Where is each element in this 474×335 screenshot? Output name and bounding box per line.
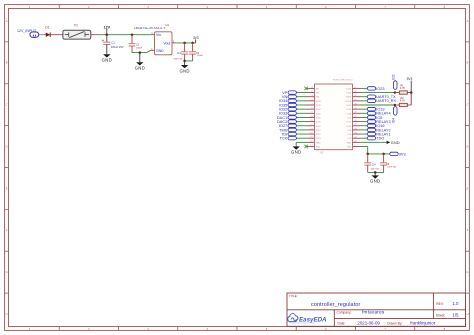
wire C2 to GND rail [132, 46, 151, 53]
svg-text:3V3: 3V3 [399, 152, 406, 156]
U2 pin names and pin stubs [307, 87, 361, 149]
node RELAY1 net label [367, 132, 390, 136]
svg-text:VN: VN [316, 97, 319, 99]
ground under decoupling caps [370, 175, 380, 183]
node 3V3 flag at R1 [407, 77, 413, 93]
resistor R2 4.7K [395, 96, 411, 107]
ground under output caps [179, 65, 189, 73]
node TDO net label [367, 137, 384, 141]
wires caps to GND rail [185, 54, 193, 61]
junction GND caps [374, 171, 377, 174]
svg-text:REV:: REV: [436, 302, 444, 306]
node IO23 net label [367, 87, 384, 91]
C4 labels [371, 162, 380, 170]
node IO5 net label [367, 116, 382, 120]
C2 labels 100nF [136, 44, 143, 50]
ground flag right of U2 [387, 141, 400, 145]
svg-text:GND: GND [135, 66, 145, 71]
svg-text:24: 24 [355, 137, 357, 139]
svg-text:36: 36 [355, 91, 357, 93]
svg-text:Date:: Date: [338, 321, 346, 325]
node RELAY3 net label [367, 120, 390, 124]
microcontroller U2 ESP32-WROOM-32 [315, 80, 354, 155]
node IO34 net label [279, 99, 296, 103]
svg-text:IO4: IO4 [391, 118, 395, 123]
svg-text:100nF: 100nF [197, 55, 203, 57]
svg-text:B: B [467, 61, 469, 65]
svg-text:12: 12 [310, 124, 312, 126]
node DAC1 net label [277, 116, 296, 120]
wire RELAY4 [361, 112, 368, 114]
wire to GND [184, 61, 186, 65]
node 12V net flag [104, 25, 111, 34]
C3 labels [174, 51, 183, 60]
svg-text:D: D [6, 144, 8, 148]
wire to C5 [192, 43, 194, 52]
wire UART0_TX [361, 96, 368, 98]
svg-text:Company:: Company: [337, 310, 352, 314]
wire U2 GND pin to ground [296, 142, 306, 146]
wire to ground [374, 172, 376, 175]
node IO35 net label [279, 103, 296, 107]
svg-text:Sheet:: Sheet: [436, 313, 446, 317]
C1 labels 220uF 25V [111, 40, 124, 49]
svg-text:C1: C1 [111, 40, 115, 44]
wire IO23 [361, 87, 368, 89]
junction at 12V / C1 [106, 33, 109, 36]
svg-text:35: 35 [355, 95, 357, 97]
diode D1 [44, 25, 53, 37]
connector P1 12V input [30, 32, 39, 37]
junction 3V3/R1 [410, 91, 413, 94]
svg-text:GND: GND [156, 49, 164, 53]
wire IO2 row to R1 [361, 92, 395, 94]
wire DAC2 to U2 [296, 121, 306, 123]
regulator U1 [134, 23, 172, 55]
svg-text:ESP32-WROOM-32: ESP32-WROOM-32 [333, 80, 353, 82]
wire RELAY1 [361, 133, 368, 135]
wire TCK to U2 [296, 137, 306, 139]
svg-text:3V3: 3V3 [407, 77, 413, 81]
wire junction to GND [139, 53, 141, 63]
resistor R1 4.7K [395, 83, 411, 94]
wire connector to D1 [39, 34, 45, 36]
svg-text:4.7K: 4.7K [400, 99, 406, 103]
wire to C3 [184, 43, 186, 52]
svg-text:TCK: TCK [280, 137, 288, 141]
svg-text:1.0: 1.0 [452, 301, 459, 306]
wire to C6 [383, 154, 385, 163]
svg-text:6: 6 [311, 99, 312, 101]
svg-text:33: 33 [355, 103, 357, 105]
wire IO34 to U2 [296, 100, 306, 102]
svg-text:E: E [467, 186, 469, 190]
svg-text:14: 14 [310, 132, 312, 134]
title block texts [289, 294, 459, 325]
wire rail to C2 [131, 35, 133, 44]
svg-text:7: 7 [311, 103, 312, 105]
node 12V_INPUT label [17, 29, 37, 33]
svg-text:2021-06-09: 2021-06-09 [357, 321, 380, 326]
node VP net label [282, 91, 296, 95]
svg-text:12V: 12V [104, 25, 111, 29]
capacitor C5 [189, 52, 196, 54]
svg-text:16: 16 [310, 141, 312, 143]
svg-text:5: 5 [311, 95, 312, 97]
svg-text:EN: EN [316, 88, 319, 90]
EasyEDA logo [288, 314, 327, 324]
svg-text:13: 13 [310, 128, 312, 130]
node IO4 vertical net label [391, 107, 397, 124]
node TCK net label [280, 137, 297, 141]
no-connect pin bottom left [304, 145, 307, 148]
svg-text:34: 34 [355, 99, 357, 101]
node UART0_RX net label [367, 99, 396, 103]
svg-text:LD1117AL-33-TA3-A-T: LD1117AL-33-TA3-A-T [134, 26, 165, 30]
svg-text:C: C [467, 103, 469, 107]
svg-text:fmtavares: fmtavares [362, 310, 385, 315]
svg-text:10uF 16V: 10uF 16V [371, 169, 380, 171]
svg-text:31: 31 [355, 108, 357, 110]
svg-text:Drawn By:: Drawn By: [387, 321, 402, 325]
junction C4 top [366, 153, 369, 156]
ground under C1 [102, 54, 112, 62]
svg-text:9: 9 [311, 112, 312, 114]
svg-text:17: 17 [310, 145, 312, 147]
svg-text:B: B [6, 61, 8, 65]
svg-text:TITLE:: TITLE: [289, 294, 298, 298]
svg-text:G: G [466, 270, 468, 274]
svg-text:38: 38 [355, 141, 357, 143]
svg-text:H: H [467, 312, 469, 316]
wire U2 GND pin right [361, 141, 387, 143]
svg-text:U1: U1 [165, 23, 169, 27]
capacitor C6 [380, 163, 387, 165]
svg-text:TDO: TDO [376, 137, 384, 141]
capacitor C3 [181, 52, 188, 54]
wire RELAY2 [361, 129, 368, 131]
wire RELAY3 [361, 121, 368, 123]
node 3V3 net flag at U1 output [193, 36, 199, 43]
svg-text:3: 3 [311, 87, 312, 89]
wire IO27 to U2 [296, 125, 306, 127]
svg-text:100nF: 100nF [136, 47, 143, 49]
wire 3V3 to R2 [410, 93, 412, 105]
wire IO33 to U2 [296, 112, 306, 114]
node IO2 vertical net label [391, 74, 397, 89]
svg-text:3V3: 3V3 [193, 36, 199, 40]
svg-text:28: 28 [355, 120, 357, 122]
junction GND branch [139, 51, 142, 54]
node IO32 net label [279, 107, 296, 111]
svg-text:GND: GND [370, 179, 380, 184]
wire TDO [361, 137, 368, 139]
wire IO16 [361, 125, 368, 127]
ground at U2 left [291, 146, 301, 154]
wire to C4 [367, 154, 369, 163]
svg-text:GND: GND [316, 142, 321, 144]
svg-text:37: 37 [355, 87, 357, 89]
U1 pin 1 GND [151, 48, 155, 51]
wire IO5 [361, 116, 368, 118]
svg-text:GND: GND [291, 150, 301, 155]
svg-text:franklinjunior: franklinjunior [410, 321, 435, 326]
svg-text:controller_regulator: controller_regulator [311, 302, 360, 308]
U1 pin 3 Vin [151, 32, 155, 35]
capacitor C4 [364, 163, 371, 165]
svg-text:29: 29 [355, 116, 357, 118]
svg-text:GND: GND [346, 142, 351, 144]
wire D1 to F1 [54, 34, 63, 36]
junction C5 [191, 42, 194, 45]
svg-text:2: 2 [355, 145, 356, 147]
wire C1 to GND [106, 45, 108, 55]
svg-text:100nF 16V: 100nF 16V [387, 167, 397, 169]
svg-text:11: 11 [311, 120, 313, 122]
node UART0_TX net label [367, 95, 396, 99]
svg-text:1/5: 1/5 [452, 312, 459, 317]
wire IO19 [361, 108, 368, 110]
wire DAC1 to U2 [296, 116, 306, 118]
svg-text:E: E [6, 186, 8, 190]
svg-text:8: 8 [311, 108, 312, 110]
svg-text:Vout: Vout [164, 42, 171, 46]
svg-text:A: A [6, 19, 8, 23]
svg-text:D1: D1 [45, 25, 49, 29]
junction C6 top [382, 153, 385, 156]
svg-text:IO2: IO2 [391, 74, 395, 79]
wire IO35 to U2 [296, 104, 306, 106]
svg-text:IO23: IO23 [376, 87, 384, 91]
svg-text:TXD0: TXD0 [346, 97, 352, 99]
svg-text:4.7K: 4.7K [400, 86, 406, 90]
node TMS net label [279, 128, 296, 132]
title block [287, 293, 466, 326]
wire 3V3 pin to decoupling caps [361, 147, 390, 154]
svg-text:H: H [6, 312, 8, 316]
svg-text:UART0_RX: UART0_RX [376, 99, 396, 103]
wire VN to U2 [296, 96, 306, 98]
wire 12V rail to C1 [106, 35, 108, 43]
node IO16 net label [367, 124, 384, 128]
svg-text:G: G [6, 270, 8, 274]
svg-text:30: 30 [355, 112, 357, 114]
node 3V3 net label at caps [390, 152, 406, 156]
capacitor C1 [102, 39, 111, 44]
C5 labels [196, 52, 204, 57]
svg-text:D: D [467, 144, 469, 148]
svg-text:Vin: Vin [156, 33, 161, 37]
node DAC2 net label [277, 120, 296, 124]
junction at C2 branch [131, 33, 134, 36]
wires caps to GND rail [368, 165, 384, 172]
svg-text:10: 10 [310, 116, 312, 118]
fuse F1 [63, 23, 91, 39]
ground under C2 [135, 62, 145, 70]
wire F1 to U1 Vin [91, 34, 151, 36]
C6 labels [386, 163, 397, 169]
node RELAY2 net label [367, 128, 390, 132]
svg-text:C: C [6, 103, 8, 107]
svg-text:25: 25 [355, 132, 357, 134]
svg-text:26: 26 [355, 128, 357, 130]
node IO27 net label [279, 124, 296, 128]
wire IO4 row to R2 [361, 104, 395, 106]
svg-text:10uF 6.3V: 10uF 6.3V [174, 58, 183, 60]
junction R1/IO2 [394, 91, 397, 94]
no-connect pin EN [304, 87, 307, 90]
svg-text:GND: GND [102, 58, 112, 63]
capacitor C2 [129, 44, 136, 46]
svg-text:C3: C3 [177, 51, 181, 55]
svg-text:GND: GND [179, 68, 189, 73]
node TDI net label [281, 132, 296, 136]
wire UART0_RX [361, 100, 368, 102]
svg-text:15: 15 [310, 137, 312, 139]
svg-text:EasyEDA: EasyEDA [299, 317, 327, 324]
node IO19 net label [367, 107, 384, 111]
svg-text:A: A [467, 19, 469, 23]
wire Vout to 3V3 flag [176, 42, 196, 44]
wire VP to U2 [296, 92, 306, 94]
wire TDI to U2 [296, 133, 306, 135]
svg-text:220uF 25V: 220uF 25V [111, 45, 124, 49]
junction C3 [183, 42, 186, 45]
svg-text:27: 27 [355, 124, 357, 126]
svg-text:F1: F1 [74, 23, 78, 27]
svg-text:GND: GND [391, 141, 400, 145]
svg-text:C4: C4 [372, 162, 376, 166]
svg-text:RXD0: RXD0 [345, 101, 351, 103]
wire IO32 to U2 [296, 108, 306, 110]
junction GND at output caps [183, 60, 186, 63]
U1 pin 2 Vout [172, 40, 176, 43]
svg-text:4: 4 [311, 91, 312, 93]
junction R2/IO4 [394, 104, 397, 107]
wire TMS to U2 [296, 129, 306, 131]
node RELAY4 net label [367, 112, 390, 116]
node VN net label [282, 95, 296, 99]
node IO33 net label [279, 112, 296, 116]
